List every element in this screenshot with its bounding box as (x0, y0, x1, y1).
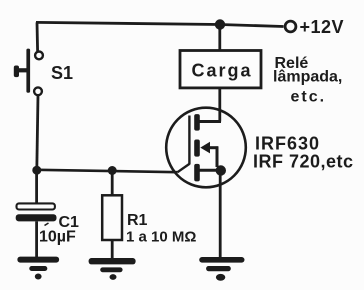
transistor Q1 gate bar (188, 116, 190, 165)
wire Carga to MOSFET drain (218, 88, 221, 122)
wire top rail (36, 22, 284, 26)
resistor R1 body (102, 195, 122, 240)
wire junction to R1 (111, 171, 114, 196)
transistor Q1 gate diagonal lead (178, 164, 190, 172)
svg-text:IRF 720,etc: IRF 720,etc (253, 152, 354, 172)
transistor Q1 body circle (166, 108, 246, 188)
capacitor C1 negative plate (16, 214, 57, 221)
node junction R1 (108, 166, 117, 175)
ground under R1 (89, 258, 136, 280)
wire S1 to gate rail (37, 95, 38, 170)
wire C1 to ground (35, 221, 38, 257)
transistor Q1 body channel bar (194, 140, 200, 157)
transistor Q1 source channel bar (194, 164, 200, 182)
transistor Q1 body lead vertical (216, 146, 219, 167)
stray polarity tick (45, 223, 49, 226)
svg-text:S1: S1 (51, 63, 73, 83)
terminal +12V circle (285, 21, 296, 32)
wire top rail to Carga (218, 25, 221, 51)
svg-text:lâmpada,: lâmpada, (273, 69, 342, 86)
transistor Q1 drain lead (199, 120, 221, 123)
svg-text:+12V: +12V (300, 17, 345, 37)
load box Carga (180, 51, 261, 88)
svg-text:Carga: Carga (192, 61, 253, 81)
transistor Q1 substrate arrow (200, 142, 210, 154)
wire source to ground (219, 171, 222, 258)
switch S1 plunger cap (14, 66, 19, 78)
node junction top rail (215, 19, 225, 29)
wire R1 to ground (111, 240, 114, 258)
ground under source (199, 257, 244, 281)
switch S1 actuator bar (26, 49, 30, 93)
ground under C1 (17, 257, 59, 280)
transistor Q1 body lead horizontal (208, 146, 218, 149)
node junction gate rail left (32, 166, 41, 175)
wire from top rail to S1 (36, 22, 39, 51)
switch S1 bottom contact (34, 87, 42, 95)
transistor Q1 drain channel bar (194, 114, 200, 131)
svg-text:IRF630: IRF630 (255, 134, 320, 154)
wire gate rail (37, 170, 178, 172)
svg-text:1 a 10 MΩ: 1 a 10 MΩ (126, 229, 196, 246)
switch S1 top contact (35, 52, 43, 60)
svg-text:etc.: etc. (291, 89, 327, 106)
svg-text:R1: R1 (127, 212, 148, 229)
transistor Q1 source lead (200, 169, 219, 172)
switch S1 plunger stem (16, 68, 27, 72)
node source junction (216, 165, 226, 175)
wire junction to C1 (35, 170, 38, 204)
svg-text:10µF: 10µF (39, 229, 76, 246)
capacitor C1 positive plate (17, 203, 55, 209)
